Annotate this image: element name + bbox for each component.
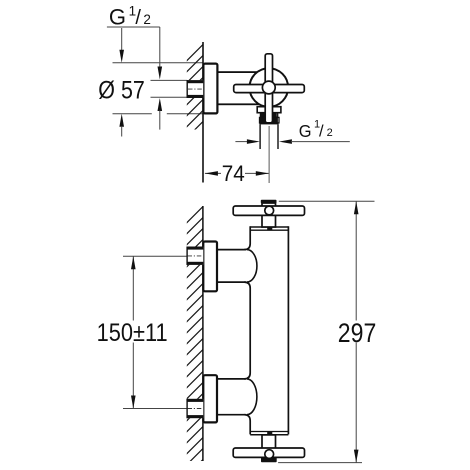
union nut cap line — [259, 123, 278, 125]
wall line top view — [202, 42, 204, 183]
dimension 150+-11 line and arrows — [132, 256, 134, 320]
upper union cone — [247, 250, 257, 283]
arrow up to nipple bottom — [158, 98, 163, 111]
valve body cylinder — [217, 72, 260, 104]
stem housing tier A — [257, 107, 281, 113]
dimension D57 extension top — [113, 62, 204, 64]
nipple centerline — [188, 88, 203, 90]
lower union nut — [187, 399, 204, 418]
label 297 — [338, 322, 376, 342]
svg-text:2: 2 — [143, 12, 151, 27]
top handle cap — [261, 200, 277, 204]
bottom handle block — [262, 435, 276, 458]
dimension 297 extension lines — [279, 200, 375, 202]
mixer body left edge with arm fillets — [244, 226, 250, 434]
svg-text:G: G — [109, 5, 126, 30]
arrow down to nipple top — [158, 67, 163, 80]
dimension 297 line and arrows — [355, 201, 357, 320]
svg-text:74: 74 — [222, 161, 245, 186]
svg-text:150±11: 150±11 — [97, 320, 168, 347]
wall line bottom view — [202, 206, 204, 461]
body top shoulder lines — [250, 226, 288, 228]
outlet pipe centerline — [268, 126, 270, 183]
handle disc — [249, 68, 288, 107]
svg-text:G: G — [299, 121, 312, 141]
svg-text:Ø 57: Ø 57 — [98, 76, 145, 104]
union tier B — [260, 113, 277, 117]
mixer body right edge — [287, 226, 289, 434]
bottom handle hub — [265, 450, 274, 459]
wall hatching bottom view — [186, 205, 205, 470]
top handle block — [262, 203, 276, 227]
label G1/2 top-left — [109, 3, 151, 29]
upper union nut — [187, 247, 204, 265]
label G1/2 right with arrows to pipe — [235, 141, 248, 143]
extension line nipple bottom — [151, 96, 188, 98]
upper wall flange — [203, 242, 217, 292]
union nut tier C — [260, 117, 280, 123]
dimension D57 extension bottom (gap at G1/2 arrow shaft) — [113, 113, 152, 115]
threaded nipple through wall — [187, 80, 204, 98]
svg-text:2: 2 — [327, 127, 333, 139]
cross handle horizontal bar — [234, 85, 305, 93]
top stem tick — [267, 227, 272, 231]
wall flange escutcheon — [203, 64, 217, 114]
upper S-union arm — [217, 249, 246, 251]
wall hatching top view — [186, 43, 205, 161]
dimension 150+-11 extension lines — [123, 255, 187, 257]
lower union cone — [247, 379, 257, 415]
svg-text:297: 297 — [338, 318, 377, 348]
D57 arrow up — [119, 114, 124, 127]
svg-text:/: / — [135, 7, 141, 29]
cross handle vertical bar — [265, 54, 272, 123]
lower S-union arm — [217, 378, 246, 380]
extension line nipple top — [151, 79, 188, 81]
handle hub circle — [262, 81, 275, 94]
body bottom shoulder lines — [250, 431, 288, 433]
bottom handle cap — [261, 458, 277, 463]
label 150+-11 — [96, 322, 168, 342]
bottom handle bar — [233, 448, 304, 457]
D57 arrow down — [121, 28, 123, 51]
bottom stem tick — [267, 432, 272, 436]
lower wall flange — [203, 375, 217, 422]
top handle hub — [265, 206, 274, 215]
svg-text:/: / — [319, 123, 324, 141]
dimension 74 — [205, 172, 221, 174]
leader line for top G1/2 — [107, 26, 160, 28]
outlet pipe — [259, 124, 261, 149]
top handle bar — [233, 206, 304, 215]
